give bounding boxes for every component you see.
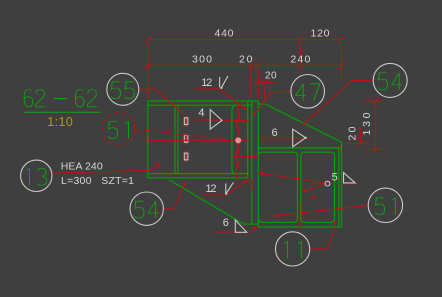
beam end plate <box>338 148 340 227</box>
vertical dim 130 <box>375 101 377 149</box>
svg-text:6: 6 <box>223 217 229 229</box>
svg-text:440: 440 <box>215 28 234 40</box>
balloon number 13 <box>26 168 46 185</box>
balloon number 51 left <box>108 122 128 139</box>
weld triangle a6 haunch <box>293 129 306 147</box>
leader 54 bottom <box>163 185 184 209</box>
balloon circle 54 lower-left <box>130 192 163 225</box>
leader weld 6 lower <box>214 226 258 232</box>
balloon circle 13 <box>21 160 52 191</box>
leader 51 dashed <box>135 129 236 141</box>
svg-text:20: 20 <box>265 70 277 81</box>
dots <box>235 137 241 143</box>
haunch right edge <box>341 142 343 227</box>
svg-text:6: 6 <box>272 127 278 139</box>
svg-text:HEA 240: HEA 240 <box>61 161 103 173</box>
plate bottom <box>244 223 259 225</box>
green structure <box>148 101 342 227</box>
leader 54 top <box>304 81 373 124</box>
end plate right edge <box>257 101 259 227</box>
dimension layer <box>145 36 385 152</box>
balloon circle 47 <box>291 75 325 109</box>
extension lines top <box>147 43 149 98</box>
top slope <box>265 104 341 142</box>
leader 55 <box>139 89 182 113</box>
flange pair <box>247 101 249 178</box>
stiffener <box>296 156 298 219</box>
column left edge <box>147 101 149 178</box>
beam top outer <box>258 147 341 149</box>
svg-text:300: 300 <box>192 53 212 65</box>
title 62-62 <box>24 90 101 113</box>
weld triangle a6 lower <box>235 220 246 232</box>
weld squiggle <box>236 107 240 181</box>
weld symbol texts <box>198 77 337 229</box>
web line R <box>177 105 179 174</box>
balloon numbers <box>26 73 402 258</box>
column bottom inner <box>148 173 248 175</box>
dim line 300/20/240 <box>148 64 342 66</box>
weld triangle a5 <box>344 173 356 183</box>
leader weld 12 top <box>195 89 247 110</box>
balloon number 54 lower-left <box>135 201 159 218</box>
weld triangle a4 <box>210 110 222 130</box>
svg-text:5: 5 <box>332 171 338 183</box>
dim texts <box>192 28 373 141</box>
bottom slope <box>169 180 243 224</box>
balloon number 55 <box>111 82 134 99</box>
column top inner <box>148 104 252 106</box>
leader 13 <box>52 166 161 174</box>
beam bottom outer <box>258 226 341 228</box>
vertical dim 20 <box>359 128 361 144</box>
svg-text:L=300 SZT=1: L=300 SZT=1 <box>61 175 134 187</box>
label texts <box>61 161 134 188</box>
weld symbols white <box>210 76 355 232</box>
svg-text:12: 12 <box>206 183 217 195</box>
inner panel edge with fillets <box>232 105 236 174</box>
leader 51 right <box>274 205 368 215</box>
column bottom outer <box>148 177 248 179</box>
bolts <box>184 116 188 162</box>
balloon circles <box>21 63 408 266</box>
leader 11 <box>310 227 336 249</box>
bolt row axis <box>148 139 249 141</box>
dim line 20 small <box>254 82 276 84</box>
balloon number 47 <box>296 84 320 101</box>
svg-text:1:10: 1:10 <box>47 115 73 129</box>
balloon circle 54 top-right <box>373 63 407 97</box>
balloon circle 11 <box>276 232 310 266</box>
red arrowheads <box>155 106 336 230</box>
column top outer <box>148 100 258 102</box>
bevel weld mark 12 bottom <box>225 184 227 194</box>
leader weld 4 <box>192 119 249 122</box>
balloon number 51 right <box>375 198 395 215</box>
svg-text:12: 12 <box>201 77 212 89</box>
svg-text:130: 130 <box>361 112 373 135</box>
leader weld 6 upper <box>260 137 311 139</box>
web line L <box>174 105 176 174</box>
beam top inner with fillets <box>258 152 334 156</box>
dim line 440/120 <box>148 39 342 41</box>
balloon number 54 top-right <box>378 73 402 90</box>
beam end inner <box>334 156 336 219</box>
beam bottom inner with fillets <box>258 219 334 223</box>
bevel weld mark 12 top <box>219 77 221 87</box>
balloon circle 55 <box>107 73 139 105</box>
arm o5 left <box>258 173 325 183</box>
leader 47 <box>255 91 291 114</box>
svg-text:4: 4 <box>198 107 204 119</box>
leader o5 horizontal <box>309 183 358 185</box>
mini top segment <box>258 103 265 105</box>
svg-text:120: 120 <box>311 28 330 40</box>
dashed circle 51 left <box>102 113 134 145</box>
leader weld 12 bottom <box>202 179 249 195</box>
arm o5 down <box>302 185 324 191</box>
svg-text:240: 240 <box>290 53 310 65</box>
red leaders and marks <box>52 81 373 249</box>
svg-text:20: 20 <box>239 53 253 65</box>
balloon number 11 <box>284 241 301 258</box>
bolt hole marker 5 <box>325 181 330 186</box>
balloon circle 51 right <box>368 188 402 222</box>
stiffener vertical red <box>299 204 301 228</box>
